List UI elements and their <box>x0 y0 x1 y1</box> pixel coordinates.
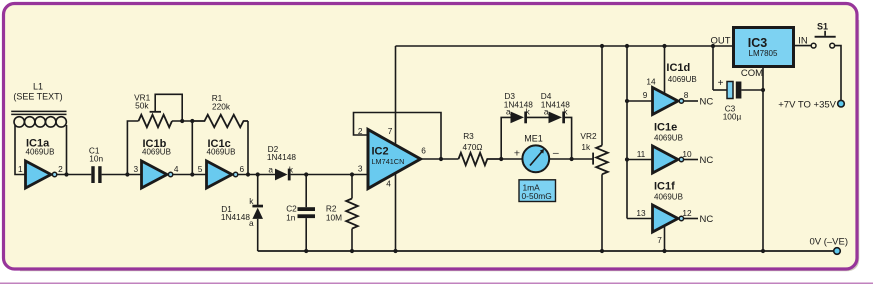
wire IC1f NC <box>684 218 698 220</box>
svg-text:–: – <box>553 147 559 159</box>
wire D1 branch upper <box>257 175 259 206</box>
svg-text:10: 10 <box>682 149 692 159</box>
wire C1 to IC1b input <box>102 174 142 176</box>
svg-text:3: 3 <box>358 164 363 174</box>
diode D1 <box>221 196 263 228</box>
svg-text:50k: 50k <box>135 100 149 110</box>
wire IC1d input stub <box>627 100 653 102</box>
svg-text:L1: L1 <box>33 82 43 92</box>
svg-text:a: a <box>544 107 549 117</box>
svg-text:3: 3 <box>133 164 138 174</box>
capacitor C3 <box>713 46 763 122</box>
node C2 bottom <box>304 249 308 253</box>
node VR2 top <box>600 44 604 48</box>
wire IC1e NC <box>684 159 698 161</box>
node VR1/R1 top junction <box>190 119 194 123</box>
svg-text:IC3: IC3 <box>748 36 768 50</box>
wire IC1c output to D2 <box>238 174 275 176</box>
resistor R1 <box>192 93 248 127</box>
svg-text:IC2: IC2 <box>372 146 389 158</box>
node R1 junction <box>246 172 250 176</box>
svg-text:4069UB: 4069UB <box>654 134 683 143</box>
svg-text:a: a <box>506 107 511 117</box>
svg-text:+: + <box>718 78 724 89</box>
svg-text:a: a <box>249 218 254 228</box>
inverter IC1f <box>636 181 692 246</box>
svg-text:IC1e: IC1e <box>654 122 677 134</box>
node pin9 junction <box>625 99 629 103</box>
svg-text:6: 6 <box>421 146 426 156</box>
regulator IC3 <box>710 28 807 80</box>
diode D2 <box>267 144 296 181</box>
svg-text:1N4148: 1N4148 <box>267 152 296 162</box>
svg-text:6: 6 <box>239 164 244 174</box>
op-amp inverter IC1a <box>18 138 63 189</box>
potentiometer VR1 <box>134 92 192 127</box>
capacitor C2 <box>286 175 315 252</box>
svg-text:COM: COM <box>741 68 763 79</box>
svg-text:9: 9 <box>643 90 648 100</box>
svg-text:4: 4 <box>386 179 391 189</box>
svg-text:S1: S1 <box>817 21 828 31</box>
svg-text:0V (–VE): 0V (–VE) <box>809 237 848 248</box>
svg-text:4069UB: 4069UB <box>207 148 236 157</box>
svg-text:7: 7 <box>388 126 393 136</box>
wire meter right <box>549 158 572 160</box>
svg-text:(SEE TEXT): (SEE TEXT) <box>13 92 62 102</box>
svg-text:NC: NC <box>700 214 714 225</box>
wire D3/D4 branch <box>501 117 510 159</box>
svg-text:1k: 1k <box>581 142 591 152</box>
svg-text:12: 12 <box>682 208 692 218</box>
svg-text:NC: NC <box>700 155 714 166</box>
svg-text:10n: 10n <box>89 154 103 164</box>
svg-text:8: 8 <box>684 90 689 100</box>
wire switch to +V terminal <box>835 46 841 101</box>
node C2 junction <box>304 172 308 176</box>
svg-text:OUT: OUT <box>710 36 730 47</box>
wire IC2 pin7 to V+ rail <box>395 46 397 146</box>
wire meter left <box>501 158 522 160</box>
diode D4 <box>541 91 570 123</box>
svg-text:4069UB: 4069UB <box>668 75 697 84</box>
inverter IC1c <box>198 138 245 188</box>
svg-text:NC: NC <box>700 97 714 108</box>
svg-text:R3: R3 <box>463 131 474 141</box>
inductor L1 <box>11 82 66 128</box>
svg-text:100µ: 100µ <box>723 112 742 122</box>
wire pin7 <box>664 225 666 252</box>
wire IC1a output to C1 <box>57 174 92 176</box>
wire D1 to 0V rail <box>257 219 259 251</box>
node pin14 top <box>662 44 666 48</box>
wire inverter input column <box>626 46 628 219</box>
wire IN to switch <box>794 45 812 47</box>
svg-text:470Ω: 470Ω <box>462 142 482 152</box>
svg-text:5: 5 <box>198 164 203 174</box>
node D4 output junction <box>570 157 574 161</box>
svg-text:10M: 10M <box>326 212 342 222</box>
terminal +7V TO +35V <box>838 100 845 107</box>
resistor R3 <box>459 131 502 165</box>
svg-text:LM7805: LM7805 <box>749 49 778 58</box>
meter ME1 <box>514 133 559 172</box>
wire D2 to IC2 pin3 <box>291 174 369 176</box>
svg-text:IC1f: IC1f <box>654 181 675 193</box>
wire to VR2 wiper <box>572 158 593 160</box>
svg-text:4: 4 <box>174 164 179 174</box>
inverter IC1e <box>637 122 692 174</box>
wire VR1 right leg down to signal <box>191 121 193 175</box>
node IC1b output junction <box>190 172 194 176</box>
svg-text:LM741CN: LM741CN <box>372 157 405 166</box>
svg-text:220k: 220k <box>212 102 231 112</box>
wire 0V rail <box>258 250 834 252</box>
svg-text:7: 7 <box>657 235 662 245</box>
node feedback junction <box>439 157 443 161</box>
node VR1 left junction <box>125 172 129 176</box>
wire D3 to D4 <box>527 116 549 118</box>
node COM bottom <box>761 249 765 253</box>
node VR2 bottom <box>600 249 604 253</box>
svg-text:1: 1 <box>18 164 23 174</box>
node D1 junction <box>256 172 260 176</box>
svg-text:+7V TO +35V: +7V TO +35V <box>778 99 836 110</box>
node pin11 junction <box>625 157 629 161</box>
wire L1 right lead to IC1a output node <box>66 125 68 175</box>
svg-text:1N4148: 1N4148 <box>221 212 250 222</box>
wire D4 branch down <box>565 117 572 159</box>
wire IC2 pin4 to 0V rail <box>395 173 397 252</box>
svg-text:11: 11 <box>637 149 646 159</box>
op-amp IC2 <box>358 126 426 189</box>
node IC2 pin4 bottom <box>393 249 397 253</box>
svg-text:IC1d: IC1d <box>666 62 690 74</box>
wire IC1b output to IC1c input <box>173 174 207 176</box>
svg-text:2: 2 <box>58 164 63 174</box>
svg-text:4069UB: 4069UB <box>142 148 171 157</box>
svg-text:4069UB: 4069UB <box>26 148 55 157</box>
wire COM to 0V rail <box>762 67 764 252</box>
node C3 top junction <box>711 44 715 48</box>
svg-text:ME1: ME1 <box>524 133 543 143</box>
inverter IC1b <box>133 138 178 188</box>
wire VR1 left leg <box>127 121 138 175</box>
terminal 0V <box>834 248 841 255</box>
svg-text:+: + <box>514 147 520 159</box>
wire IC1d NC <box>684 100 698 102</box>
wire IC2 output <box>421 158 459 160</box>
wire L1 left lead to IC1a input <box>15 125 26 175</box>
svg-text:13: 13 <box>636 208 646 218</box>
svg-text:14: 14 <box>646 77 656 87</box>
node IC1f pin7 bottom <box>662 249 666 253</box>
wire V+ top rail <box>396 45 734 47</box>
diode D3 <box>504 91 533 123</box>
svg-text:VR2: VR2 <box>580 131 597 141</box>
wire IC1f input stub <box>627 218 653 220</box>
wire pin14 <box>664 46 666 95</box>
node R2 bottom <box>350 249 354 253</box>
svg-text:4069UB: 4069UB <box>654 193 683 202</box>
svg-text:1n: 1n <box>286 212 296 222</box>
capacitor C1 <box>89 146 104 184</box>
node inverter input column top <box>625 44 629 48</box>
inverter IC1d <box>643 62 697 115</box>
node R2 junction <box>350 172 354 176</box>
svg-text:a: a <box>268 164 273 174</box>
node C3/COM junction <box>761 88 765 92</box>
wire R1 right leg down <box>247 121 249 175</box>
node R3 output junction <box>499 157 503 161</box>
crop artifact line at page bottom <box>0 282 873 284</box>
node IC1a output junction <box>64 172 68 176</box>
wire IC2 pin2 feedback loop <box>354 113 442 160</box>
switch S1 <box>811 21 836 48</box>
svg-text:0-50mG: 0-50mG <box>522 191 552 201</box>
resistor R2 <box>326 175 358 252</box>
label box 1mA 0-50mG <box>519 180 556 202</box>
wire IC1e input stub <box>627 159 653 161</box>
potentiometer VR2 <box>580 46 607 251</box>
